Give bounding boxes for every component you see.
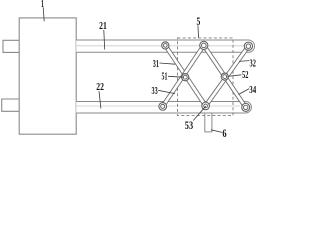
svg-text:52: 52 [242,69,249,81]
pivot C [244,42,252,50]
bracket 6 [205,113,212,132]
pivot E (52) [221,73,228,80]
svg-text:31: 31 [153,58,159,70]
left tab upper [3,40,19,52]
leader 53 [193,106,206,120]
housing box 1 [19,18,76,134]
rail 21 [76,40,254,52]
leader 52 [228,75,242,77]
leader 21 [103,30,106,50]
left tab lower [2,99,20,111]
leader 22 [99,91,101,108]
svg-text:22: 22 [96,81,104,93]
leader 33 [158,90,175,93]
scissor link C-G [206,46,249,106]
rail 22 inner line [76,105,240,107]
rail 22 [76,102,251,114]
svg-text:6: 6 [222,128,226,140]
pivot B [200,41,208,49]
svg-text:5: 5 [197,16,201,28]
pivot G (53) [202,102,210,110]
scissor link A-G [165,45,205,106]
leader 1 [43,7,44,21]
leader 34 [239,89,250,95]
scissor link B-H [204,45,246,107]
svg-text:33: 33 [152,85,158,97]
leader 5 [197,26,200,38]
svg-text:32: 32 [250,57,257,69]
svg-text:1: 1 [41,0,44,10]
pivot F [159,103,167,111]
pivot D (51) [182,74,189,81]
rail 21 inner line [76,45,244,47]
leader 31 [160,63,176,64]
svg-text:53: 53 [185,120,193,132]
leader 32 [239,60,249,63]
svg-text:34: 34 [249,84,256,96]
svg-text:51: 51 [162,71,168,83]
pivot H [242,103,250,111]
leader 6 [211,130,222,133]
scissor link B-F [163,45,204,106]
svg-text:21: 21 [99,20,107,32]
leader 51 [168,75,184,78]
pivot A [162,42,169,49]
dashed frame 5 [178,38,234,116]
